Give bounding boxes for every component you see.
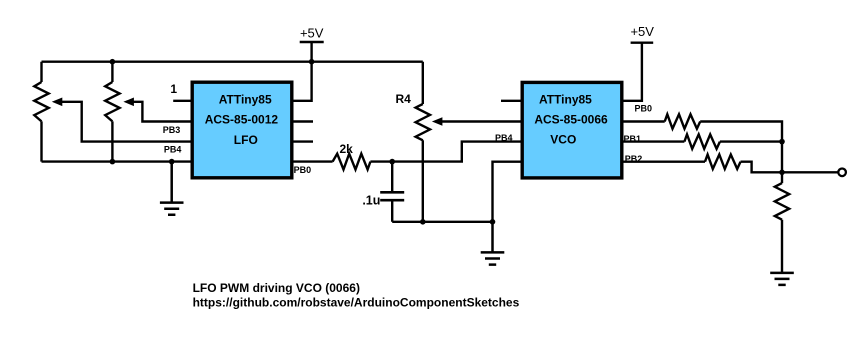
wire VCO GND pin bbox=[493, 162, 521, 222]
svg-text:LFO: LFO bbox=[234, 133, 258, 147]
wire PB2 step to column bbox=[741, 162, 783, 173]
svg-text:+5V: +5V bbox=[300, 25, 324, 40]
potentiometer P1 body bbox=[34, 62, 48, 162]
wire top +5V rail bbox=[42, 61, 423, 63]
svg-text:PB4: PB4 bbox=[164, 145, 182, 155]
svg-text:PB0: PB0 bbox=[635, 104, 653, 114]
wire left ground rail bbox=[42, 160, 191, 162]
node junction VCO gnd bbox=[490, 219, 496, 225]
potentiometer R4 body bbox=[416, 62, 430, 222]
capacitor C1 .1u bbox=[391, 162, 393, 222]
node junction R4 bottom bbox=[420, 219, 426, 225]
op-amp U2 ATTiny85 VCO box bbox=[522, 82, 622, 177]
wire LFO VCC to rail bbox=[294, 62, 312, 101]
wire R8 to ground bbox=[781, 220, 783, 273]
power +5V symbol right bbox=[631, 42, 654, 44]
node junction PB1 column bbox=[779, 139, 785, 145]
node junction pot2 bottom bbox=[110, 159, 116, 165]
svg-text:ACS-85-0012: ACS-85-0012 bbox=[205, 112, 279, 126]
potentiometer P2 wiper arrow bbox=[123, 98, 133, 107]
node junction ground stem bbox=[169, 159, 175, 165]
stub LFO pin PB1 bbox=[294, 140, 314, 142]
pin 1 stub VCO bbox=[501, 100, 521, 102]
pin 1 stub LFO bbox=[173, 100, 190, 102]
ground G2 bbox=[481, 222, 505, 265]
node junction +5V rail bbox=[309, 59, 315, 65]
svg-text:.1u: .1u bbox=[362, 193, 380, 207]
resistor 2k bbox=[333, 154, 371, 170]
svg-text:ATTiny85: ATTiny85 bbox=[539, 92, 592, 106]
wire bottom rail cap to VCO gnd bbox=[392, 221, 492, 223]
wire output bbox=[782, 171, 838, 173]
ground G3 bbox=[770, 273, 794, 285]
svg-text:2k: 2k bbox=[340, 142, 354, 156]
resistor R8 to ground bbox=[775, 183, 789, 220]
resistor R5 PB0 bbox=[665, 114, 701, 128]
potentiometer P1 wiper arrow bbox=[52, 98, 63, 107]
wire P2 wiper to LFO PB3 bbox=[133, 102, 191, 122]
wire PB0 to column bbox=[700, 122, 782, 184]
svg-text:PB4: PB4 bbox=[495, 133, 513, 143]
svg-text:ATTiny85: ATTiny85 bbox=[219, 92, 272, 106]
power +5V symbol left bbox=[300, 42, 324, 62]
svg-text:LFO PWM driving VCO (0066): LFO PWM driving VCO (0066) bbox=[193, 281, 360, 295]
wire VCO PB1 bbox=[624, 140, 685, 142]
potentiometer P2 body bbox=[105, 62, 119, 162]
svg-text:PB3: PB3 bbox=[163, 125, 181, 135]
wire VCO PB0 bbox=[624, 120, 665, 122]
ground G1 bbox=[160, 162, 184, 215]
node junction output bbox=[779, 170, 785, 176]
svg-text:PB0: PB0 bbox=[294, 165, 312, 175]
wire node A to VCO PB4 step bbox=[392, 142, 520, 162]
wire VCO PB2 bbox=[624, 160, 706, 162]
svg-text:+5V: +5V bbox=[630, 24, 654, 39]
op-amp U1 ATTiny85 LFO box bbox=[192, 82, 292, 178]
node junction pot2 top bbox=[110, 59, 116, 65]
wire PB1 to column bbox=[720, 140, 782, 142]
resistor R7 PB2 bbox=[705, 155, 741, 169]
node A junction bbox=[389, 159, 395, 165]
wire VCO VCC bbox=[624, 43, 642, 101]
wire R4 wiper to VCO PB3 bbox=[441, 120, 520, 122]
svg-text:ACS-85-0066: ACS-85-0066 bbox=[534, 112, 608, 126]
resistor R6 PB1 bbox=[684, 134, 720, 148]
R4 wiper arrow bbox=[432, 117, 443, 126]
svg-text:https://github.com/robstave/Ar: https://github.com/robstave/ArduinoCompo… bbox=[193, 296, 520, 310]
wire P1 wiper to LFO PB4 bbox=[61, 102, 190, 142]
wire LFO PB0 out bbox=[294, 160, 333, 162]
terminal output circle bbox=[838, 169, 846, 177]
svg-text:VCO: VCO bbox=[550, 132, 576, 146]
svg-text:1: 1 bbox=[170, 82, 177, 96]
svg-text:R4: R4 bbox=[396, 92, 412, 106]
stub LFO pin PB2 bbox=[294, 120, 314, 122]
wire 2k to node A bbox=[370, 160, 392, 162]
